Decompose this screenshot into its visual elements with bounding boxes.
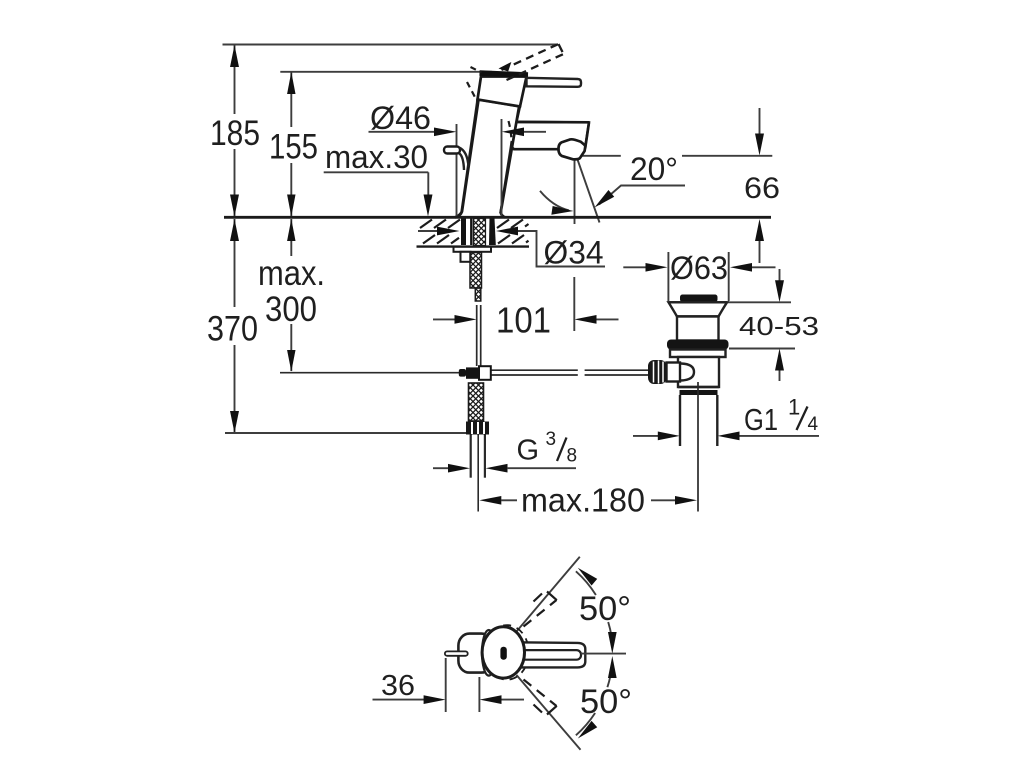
rod boss arc: [681, 364, 694, 381]
braided hose lower: [469, 383, 484, 421]
svg-text:G: G: [517, 435, 540, 467]
dashed lever tip: [559, 44, 564, 54]
washer under deck: [454, 247, 492, 252]
body left edge: [455, 100, 479, 218]
max.300 dimension line: [290, 219, 292, 256]
svg-text:50°: 50°: [580, 683, 632, 721]
20 deg leader: [599, 186, 685, 205]
spout right edge: [585, 122, 589, 148]
dimension line 155: [290, 72, 292, 127]
50 deg arc upper: [576, 571, 596, 595]
spout bottom edge: [512, 142, 559, 150]
deck hatching: [420, 220, 529, 244]
body circle: [482, 627, 524, 678]
hose rod lines: [476, 305, 478, 366]
svg-text:max.180: max.180: [521, 482, 645, 519]
dashed ellipse: [485, 625, 529, 680]
G3/8 pipe walls: [470, 435, 472, 478]
plug cap: [680, 295, 718, 303]
G3/8 dimension: [433, 467, 449, 469]
lower dashed lever edge: [524, 680, 557, 707]
Ø63 extension lines: [667, 252, 669, 301]
flange bottom line: [677, 315, 719, 317]
svg-text:36: 36: [381, 670, 415, 702]
lever bar: [527, 78, 582, 87]
svg-text:40-53: 40-53: [739, 311, 819, 341]
50 deg arc lower: [607, 665, 612, 688]
svg-text:Ø34: Ø34: [544, 235, 604, 271]
centre line right: [581, 653, 626, 655]
pipe centre line: [477, 435, 479, 512]
101 dimension line right: [574, 315, 596, 324]
155 reference line: [280, 71, 492, 73]
shank wall right: [489, 219, 496, 246]
spout top edge: [517, 121, 590, 124]
gasket: [667, 340, 729, 350]
hose crimp tip: [475, 288, 481, 301]
Ø34 leader bracket: [518, 231, 605, 267]
rod tee black block: [466, 367, 479, 378]
tailpipe centre line: [697, 382, 699, 512]
svg-text:Ø63: Ø63: [670, 250, 728, 286]
spout outlet reference line: [578, 155, 621, 157]
rod tee white block: [479, 366, 491, 380]
svg-text:max.30: max.30: [325, 139, 428, 175]
lower lever axis line: [517, 675, 581, 750]
Ø46 dimension line: [369, 131, 436, 133]
pop-up rod knob: [444, 147, 460, 154]
svg-text:185: 185: [210, 114, 260, 153]
faucet body: [455, 100, 589, 218]
knob box: [667, 363, 681, 382]
svg-text:Ø46: Ø46: [370, 100, 431, 136]
shank braided hose section: [474, 219, 486, 246]
max.180 dimension: [479, 496, 501, 505]
svg-text:101: 101: [496, 300, 551, 341]
lever slot: [521, 650, 581, 660]
svg-text:max.: max.: [258, 254, 325, 293]
pop-up rod horizontal (left single): [280, 372, 461, 374]
aerator: [558, 139, 585, 159]
Ø63 dimension line: [623, 266, 646, 268]
nut under washer: [461, 252, 471, 262]
svg-text:155: 155: [269, 128, 318, 167]
cap bar: [480, 73, 529, 75]
pop-up rod horizontal (right pair): [491, 369, 578, 371]
svg-text:300: 300: [265, 290, 317, 329]
body right edge: [501, 107, 519, 218]
base lens ellipse: [482, 630, 496, 676]
flange: [669, 302, 728, 316]
deck top line: [224, 216, 771, 219]
svg-text:66: 66: [744, 172, 780, 205]
tailpipe walls: [679, 395, 681, 446]
handle cube: [478, 77, 527, 107]
rod tee nub: [459, 369, 466, 377]
40-53 dimension: [779, 269, 781, 281]
G1 1/4 dimension: [633, 435, 659, 437]
36 dimension line: [373, 699, 425, 701]
base stadium: [458, 634, 492, 673]
Ø46 extension line left: [456, 124, 458, 217]
101 dimension line left: [433, 318, 456, 320]
braided hose upper: [470, 253, 482, 289]
svg-text:1: 1: [788, 395, 800, 420]
svg-text:20°: 20°: [630, 151, 678, 187]
370 dimension line: [234, 219, 236, 307]
dashed raised lever: [502, 44, 564, 80]
svg-text:3: 3: [546, 429, 557, 450]
20 deg stream line: [578, 160, 600, 223]
top reference line (185 level): [223, 44, 559, 46]
shank wall left: [461, 219, 466, 246]
knob: [648, 360, 667, 384]
neck: [677, 317, 719, 341]
svg-text:370: 370: [207, 310, 258, 349]
flange top line: [669, 301, 728, 303]
coupling band: [680, 390, 718, 395]
upper lever axis line: [517, 557, 580, 632]
66 dimension line: [759, 108, 761, 134]
20 deg reference vertical: [574, 160, 576, 225]
rod pin: [445, 651, 468, 655]
pop-up rod curve: [459, 148, 469, 168]
Ø46 right arrow: [502, 127, 524, 136]
370 bottom reference line: [225, 432, 469, 434]
Ø46 extension line right: [501, 119, 503, 217]
101 right extension line: [573, 277, 575, 331]
svg-text:G1: G1: [744, 402, 778, 437]
dimension line 185: [234, 45, 236, 114]
dashed cartridge marks: [467, 67, 512, 153]
G3/8 nut: [466, 422, 489, 435]
max.30 leader: [324, 171, 429, 173]
centre nub: [500, 647, 506, 660]
36 extension lines: [445, 658, 447, 712]
Ø34 arrows at shank: [418, 230, 438, 232]
svg-text:8: 8: [567, 446, 578, 467]
body lower band: [678, 357, 719, 387]
svg-text:4: 4: [808, 414, 819, 435]
upper dashed lever edge: [524, 600, 557, 627]
coupling line: [678, 386, 719, 388]
40-53 bottom reference line: [729, 348, 795, 350]
svg-text:50°: 50°: [579, 590, 631, 628]
body upper band: [670, 350, 726, 358]
lever arm: [518, 642, 586, 667]
small dark mark near cap: [499, 62, 512, 72]
40-53 top reference line: [727, 301, 791, 303]
20 deg angle arc: [540, 191, 569, 211]
shank wall inner left line: [470, 219, 472, 246]
deck bottom line: [417, 245, 530, 247]
